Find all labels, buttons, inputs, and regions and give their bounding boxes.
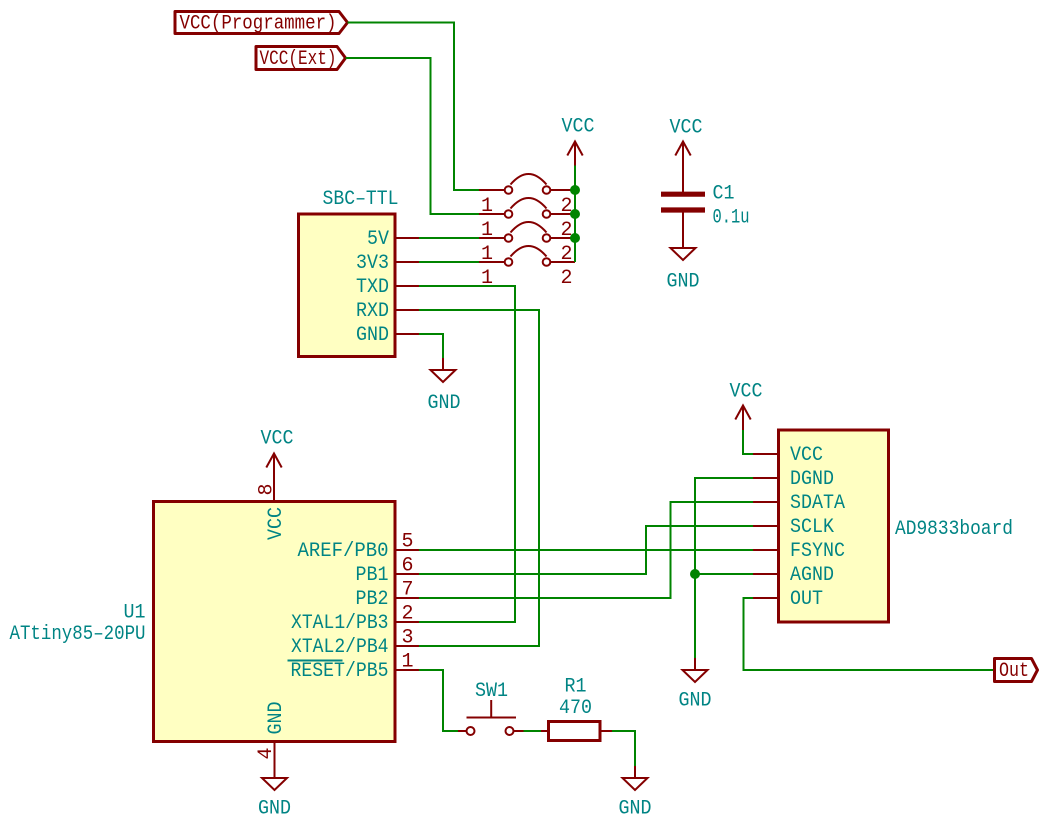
svg-text:XTAL2/PB4: XTAL2/PB4 [291, 636, 389, 659]
wire R1 to ground [612, 731, 635, 766]
svg-text:VCC: VCC [730, 381, 763, 404]
junction dot row2 [570, 209, 580, 219]
pin 3 XTAL2/PB4 of U1 [291, 627, 419, 660]
svg-text:SW1: SW1 [475, 680, 508, 703]
svg-text:2: 2 [401, 603, 413, 626]
IC AD9833board [779, 430, 1014, 622]
wire PB1 to SCLK [419, 526, 753, 574]
svg-text:OUT: OUT [790, 588, 823, 611]
pin 3V3 of SBC-TTL [356, 252, 419, 275]
jumper JP3 row3 [479, 222, 575, 266]
jumper JP2 row2 [479, 198, 575, 242]
svg-text:SCLK: SCLK [790, 516, 834, 539]
wire PB2 to SDATA [419, 502, 753, 598]
pin GND of SBC-TTL [356, 324, 419, 347]
svg-text:VCC(Programmer): VCC(Programmer) [180, 13, 337, 36]
junction dot AGND/DGND [690, 569, 700, 579]
pin AGND of AD9833board [753, 564, 834, 587]
svg-text:AREF/PB0: AREF/PB0 [298, 540, 389, 563]
pin 8 VCC of U1 [256, 478, 289, 541]
svg-text:XTAL1/PB3: XTAL1/PB3 [291, 612, 389, 635]
svg-text:1: 1 [401, 651, 413, 674]
svg-text:RXD: RXD [356, 300, 389, 323]
pin 4 GND of U1 [255, 702, 288, 767]
pin VCC of AD9833board [753, 444, 823, 467]
junction dot row1 [570, 185, 580, 195]
switch SW1 [458, 680, 524, 735]
svg-text:PB1: PB1 [356, 564, 389, 587]
ground below U1 [258, 766, 291, 821]
svg-text:ATtiny85–20PU: ATtiny85–20PU [10, 623, 146, 646]
svg-text:VCC: VCC [562, 116, 595, 139]
pin DGND of AD9833board [753, 468, 834, 491]
wire OUT to Out label [744, 598, 995, 670]
svg-text:GND: GND [258, 798, 291, 821]
wire RXD to XTAL2/PB4 [419, 310, 539, 646]
svg-text:1: 1 [481, 267, 493, 290]
svg-text:0.1u: 0.1u [713, 207, 750, 230]
svg-text:FSYNC: FSYNC [790, 540, 845, 563]
global label VCC(Programmer) [175, 12, 348, 36]
svg-text:C1: C1 [713, 183, 735, 206]
svg-text:2: 2 [560, 267, 572, 290]
capacitor C1 [661, 183, 750, 230]
svg-text:AGND: AGND [790, 564, 834, 587]
power VCC above U1 [261, 428, 294, 478]
wire RESET/PB5 to SW1 [419, 670, 458, 731]
svg-text:8: 8 [256, 483, 279, 495]
pin FSYNC of AD9833board [753, 540, 845, 563]
wire VCC to AD9833board [743, 430, 753, 454]
global label Out [995, 659, 1038, 684]
svg-text:6: 6 [401, 555, 413, 578]
svg-text:3: 3 [401, 627, 413, 650]
junction dot row3 [570, 233, 580, 243]
wire VCC(Programmer) to jumper row1 [348, 23, 480, 191]
svg-text:PB2: PB2 [356, 588, 389, 611]
ground below C1 [667, 213, 700, 294]
svg-text:GND: GND [667, 271, 700, 294]
svg-text:Out: Out [999, 660, 1029, 683]
pin SDATA of AD9833board [753, 492, 845, 515]
wire VCC(Ext) to jumper row2 [346, 58, 480, 214]
pin 6 PB1 of U1 [356, 555, 420, 588]
svg-text:AD9833board: AD9833board [895, 518, 1013, 541]
wire 5V to jumper row3 [419, 237, 479, 239]
svg-text:470: 470 [559, 697, 592, 720]
ground below AD9833board [679, 658, 712, 713]
svg-text:VCC: VCC [790, 444, 823, 467]
pin 5V of SBC-TTL [367, 228, 419, 251]
svg-text:7: 7 [401, 579, 413, 602]
svg-text:VCC: VCC [670, 117, 703, 140]
svg-text:4: 4 [255, 747, 278, 759]
svg-text:SDATA: SDATA [790, 492, 845, 515]
wire SBC GND down [419, 334, 443, 358]
svg-text:5: 5 [401, 531, 413, 554]
pin SCLK of AD9833board [753, 516, 834, 539]
ground below R1 [619, 766, 652, 821]
power VCC above jumpers [562, 116, 595, 166]
svg-text:SBC–TTL: SBC–TTL [323, 188, 399, 211]
svg-text:5V: 5V [367, 228, 389, 251]
wire DGND down to ground [695, 478, 753, 658]
wire AGND to junction [695, 573, 753, 575]
jumper JP1 row1 [479, 174, 575, 218]
svg-text:GND: GND [679, 690, 712, 713]
svg-text:U1: U1 [124, 602, 146, 625]
wire 3V3 to jumper row4 [419, 261, 479, 263]
pin RXD of SBC-TTL [356, 300, 419, 323]
pin 5 AREF/PB0 of U1 [298, 531, 420, 564]
svg-text:R1: R1 [565, 676, 587, 699]
svg-text:TXD: TXD [356, 276, 389, 299]
component SBC-TTL [299, 188, 399, 357]
pin 7 PB2 of U1 [356, 579, 420, 612]
wire SW1 to R1 [524, 730, 542, 732]
jumper JP4 row4 [479, 246, 575, 290]
svg-text:GND: GND [356, 324, 389, 347]
IC U1 ATtiny85-20PU [10, 502, 396, 742]
ground below SBC-TTL [428, 358, 461, 415]
pin 2 XTAL1/PB3 of U1 [291, 603, 419, 636]
pin 1 RESET/PB5 of U1 [288, 651, 420, 684]
resistor R1 470 [541, 676, 612, 741]
power VCC above AD9833board [730, 381, 763, 431]
svg-text:RESET/PB5: RESET/PB5 [291, 660, 389, 683]
svg-text:DGND: DGND [790, 468, 834, 491]
svg-text:GND: GND [265, 702, 288, 735]
pin OUT of AD9833board [753, 588, 823, 611]
svg-text:GND: GND [428, 392, 461, 415]
svg-text:VCC: VCC [265, 507, 288, 540]
pin TXD of SBC-TTL [356, 276, 419, 299]
svg-text:VCC: VCC [261, 428, 294, 451]
svg-text:VCC(Ext): VCC(Ext) [260, 48, 337, 71]
global label VCC(Ext) [256, 47, 346, 72]
power VCC above C1 [670, 117, 703, 193]
wire TXD to XTAL1/PB3 [419, 286, 515, 622]
svg-text:GND: GND [619, 798, 652, 821]
wire jumper outputs vertical [574, 166, 576, 263]
svg-text:3V3: 3V3 [356, 252, 389, 275]
wire AREF/PB0 to FSYNC [419, 549, 753, 551]
